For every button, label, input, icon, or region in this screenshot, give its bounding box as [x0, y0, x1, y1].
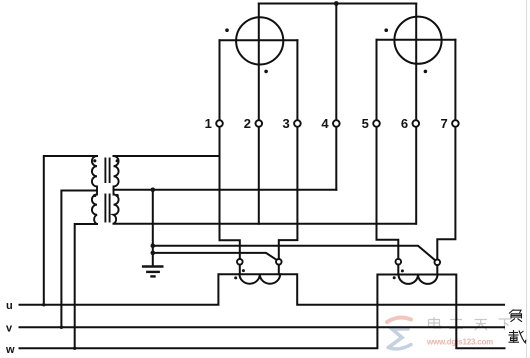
svg-text:7: 7: [440, 116, 447, 131]
svg-text:5: 5: [362, 116, 369, 131]
svg-text:v: v: [6, 323, 13, 335]
svg-text:w: w: [5, 344, 15, 356]
svg-text:6: 6: [401, 116, 408, 131]
svg-text:4: 4: [321, 116, 329, 131]
svg-text:1: 1: [205, 116, 212, 131]
svg-text:3: 3: [282, 116, 289, 131]
svg-text:u: u: [6, 300, 13, 312]
svg-text:www.dgjs123.com: www.dgjs123.com: [426, 338, 493, 347]
svg-text:2: 2: [244, 116, 251, 131]
